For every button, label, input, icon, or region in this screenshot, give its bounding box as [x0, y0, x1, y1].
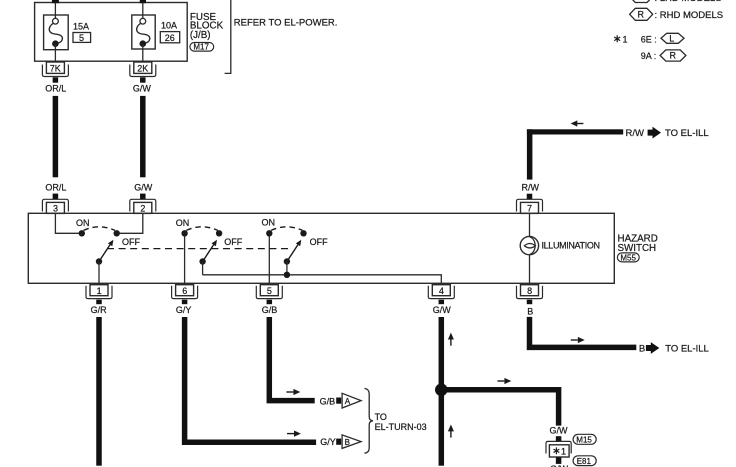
direction arrow up (upper) on G/W	[448, 333, 454, 346]
wire pin3 to ON contact	[55, 213, 81, 233]
fuse F26 10A	[132, 15, 155, 61]
wire G/Y down and right	[185, 317, 317, 442]
svg-text:REFER TO EL-POWER.: REFER TO EL-POWER.	[234, 17, 338, 28]
wire battery feed to fuse 26	[140, 0, 146, 3]
svg-text:OFF: OFF	[122, 237, 140, 247]
pole3 ON contact	[266, 230, 272, 236]
svg-text:9A :: 9A :	[641, 51, 657, 61]
brace TO EL-TURN-03	[365, 388, 374, 453]
wire G/R down	[96, 317, 102, 466]
pole2 ON contact	[181, 230, 187, 236]
wire pole3 ON to pin 5	[268, 233, 270, 283]
svg-text:G/Y: G/Y	[320, 437, 336, 447]
pole3 common contact	[284, 258, 290, 264]
wire pin2 to OFF contact	[117, 213, 143, 233]
svg-text:26: 26	[165, 33, 175, 43]
pole1 lever arrow	[99, 240, 113, 262]
svg-text:G/B: G/B	[320, 396, 336, 406]
svg-text:TO EL-ILL: TO EL-ILL	[665, 128, 709, 139]
pole3 dashed throw arc	[271, 227, 303, 231]
svg-text:ON: ON	[262, 217, 276, 227]
wire stub above pin 7	[527, 194, 533, 200]
connector 2K	[130, 62, 156, 77]
solid arrow TO EL-ILL (top)	[648, 127, 661, 139]
connector pin 1	[86, 285, 112, 299]
svg-text:G/W: G/W	[134, 182, 153, 192]
mechanical link dashed line	[107, 248, 291, 250]
svg-text:B: B	[527, 306, 533, 316]
pole1 OFF contact	[114, 230, 120, 236]
wire B down and right	[530, 317, 637, 347]
wire R/W vertical	[527, 129, 533, 179]
connector pin 6	[172, 285, 198, 299]
svg-text:G/W: G/W	[133, 84, 152, 94]
fuse number 5 box	[73, 33, 91, 43]
wire OR/L	[53, 96, 59, 177]
wire link into fuse 5	[54, 3, 56, 19]
pole3 lever arrow	[287, 240, 301, 262]
illumination lamp	[520, 236, 538, 254]
connector pin 7	[517, 199, 543, 213]
svg-text:: RHD MODELS: : RHD MODELS	[655, 10, 724, 21]
connector pin 4	[428, 285, 454, 299]
direction arrow on G/Y	[287, 431, 301, 437]
svg-text:R: R	[670, 51, 677, 61]
wire stub below pin 4	[439, 300, 445, 305]
svg-text:G/W: G/W	[433, 305, 452, 315]
svg-text:6E :: 6E :	[641, 35, 657, 45]
wire pole2 ON to pin 6	[184, 233, 186, 283]
svg-text:6: 6	[182, 286, 187, 296]
joint square G/B	[336, 398, 341, 404]
pole2 lever arrow	[203, 240, 217, 262]
direction arrow on G/B	[286, 389, 300, 395]
svg-text:2: 2	[140, 204, 145, 214]
junction node on bus	[284, 272, 290, 278]
pole3 OFF contact	[300, 230, 306, 236]
inline connector *1	[546, 441, 571, 457]
legend RHD hexagon	[630, 8, 724, 21]
svg-text:: LHD MODELS: : LHD MODELS	[655, 0, 722, 4]
svg-text:B: B	[345, 438, 350, 447]
pole1 ON contact	[79, 230, 85, 236]
svg-text:OR/L: OR/L	[45, 84, 66, 94]
svg-text:M17: M17	[193, 43, 209, 52]
svg-text:B: B	[639, 343, 645, 354]
svg-text:(J/B): (J/B)	[190, 30, 211, 41]
wire G/B down and right	[269, 317, 314, 401]
wire pole1 common to pin 1	[98, 262, 100, 284]
svg-text:OFF: OFF	[310, 237, 328, 247]
direction arrow on B wire	[571, 337, 585, 343]
connector 7K	[42, 62, 68, 77]
joint triangle A	[342, 393, 361, 408]
svg-text:8: 8	[527, 286, 532, 296]
svg-text:G/W: G/W	[550, 426, 569, 436]
svg-text:ON: ON	[176, 218, 190, 228]
bus wire to pin 4	[203, 275, 442, 284]
svg-text:10A: 10A	[161, 21, 177, 31]
svg-text:5: 5	[267, 286, 272, 296]
connector M15 oval	[573, 434, 596, 444]
svg-text:15A: 15A	[73, 22, 89, 32]
pole1 dashed throw arc	[84, 227, 116, 231]
pole2 common contact	[199, 258, 205, 264]
wire stub above *1 connector	[556, 436, 562, 442]
svg-text:M55: M55	[620, 253, 636, 262]
direction arrow left on R/W	[571, 120, 584, 126]
svg-text:1: 1	[623, 35, 628, 45]
legend note *1 6E	[614, 33, 684, 44]
svg-text:ON: ON	[76, 218, 90, 228]
junction node on G/W	[435, 384, 448, 397]
legend note 9A	[641, 50, 686, 61]
wire stub below 7K	[53, 77, 59, 82]
bracket for REFER TO EL-POWER	[225, 0, 231, 73]
wire stub below pin 1	[96, 300, 102, 305]
connector pin 3	[42, 199, 68, 213]
connector pin 8	[517, 285, 543, 299]
wire R/W horizontal to EL-ILL	[527, 129, 623, 134]
wire battery feed to fuse 5	[52, 0, 59, 3]
pole2 dashed throw arc	[186, 227, 218, 231]
svg-text:EL-TURN-03: EL-TURN-03	[375, 422, 427, 432]
svg-text:TO EL-ILL: TO EL-ILL	[665, 343, 709, 354]
fuse number 26 box	[160, 32, 179, 43]
wire pin7 to pin8 through lamp	[529, 213, 531, 283]
fuse block box J/B	[35, 3, 188, 62]
svg-text:R/W: R/W	[626, 128, 645, 139]
wire stub below *1 connector	[556, 458, 562, 464]
svg-text:G/Y: G/Y	[176, 305, 192, 315]
direction arrow on G/W branch	[497, 378, 511, 384]
joint square G/Y	[336, 439, 341, 445]
wire pole2 common to bus	[202, 262, 204, 275]
solid arrow TO EL-ILL (bottom)	[646, 342, 659, 354]
svg-text:2K: 2K	[137, 64, 148, 74]
svg-text:TO: TO	[375, 412, 387, 422]
svg-text:7K: 7K	[50, 64, 61, 74]
svg-text:R/W: R/W	[522, 182, 540, 192]
wire G/W branch right and down	[441, 390, 558, 426]
hazard switch box	[28, 213, 614, 283]
svg-text:4: 4	[439, 286, 444, 296]
connector M55 oval	[617, 253, 639, 263]
wire G/W down to bottom	[439, 317, 445, 466]
connector M17 oval	[190, 43, 214, 52]
pole2 OFF contact	[216, 230, 222, 236]
svg-text:SWITCH: SWITCH	[618, 243, 657, 254]
direction arrow up (lower) on G/W	[448, 425, 454, 438]
svg-text:R: R	[638, 10, 645, 20]
svg-text:E81: E81	[577, 457, 592, 466]
wire G/W	[140, 96, 146, 177]
connector pin 2	[130, 199, 156, 213]
svg-text:G/R: G/R	[91, 305, 108, 315]
svg-text:L: L	[669, 34, 674, 44]
wire stub below pin 6	[182, 300, 188, 305]
pole1 common contact	[96, 258, 102, 264]
svg-text:G/B: G/B	[262, 305, 278, 315]
wire pole3 common to bus	[286, 262, 288, 275]
svg-text:3: 3	[53, 204, 58, 214]
svg-text:5: 5	[79, 33, 84, 43]
svg-text:OFF: OFF	[224, 237, 242, 247]
joint triangle B	[342, 435, 361, 449]
svg-text:OR/L: OR/L	[45, 182, 66, 192]
fuse F5 15A	[44, 15, 69, 61]
svg-text:7: 7	[527, 204, 532, 214]
svg-text:ILLUMINATION: ILLUMINATION	[542, 240, 600, 250]
wire stub below 2K	[140, 77, 146, 82]
wire stub above pin 3	[53, 194, 59, 200]
connector pin 5	[256, 285, 282, 299]
svg-text:M15: M15	[576, 436, 592, 445]
wire stub above pin 2	[140, 194, 146, 200]
svg-text:A: A	[345, 397, 351, 406]
wire link into fuse 26	[142, 3, 144, 19]
svg-text:1: 1	[97, 286, 102, 296]
connector E81 oval	[573, 456, 596, 466]
wire stub below pin 8	[527, 300, 533, 305]
legend LHD hexagon (cut off at top)	[630, 0, 722, 4]
wire stub below pin 5	[267, 300, 273, 305]
svg-text:1: 1	[561, 446, 566, 456]
